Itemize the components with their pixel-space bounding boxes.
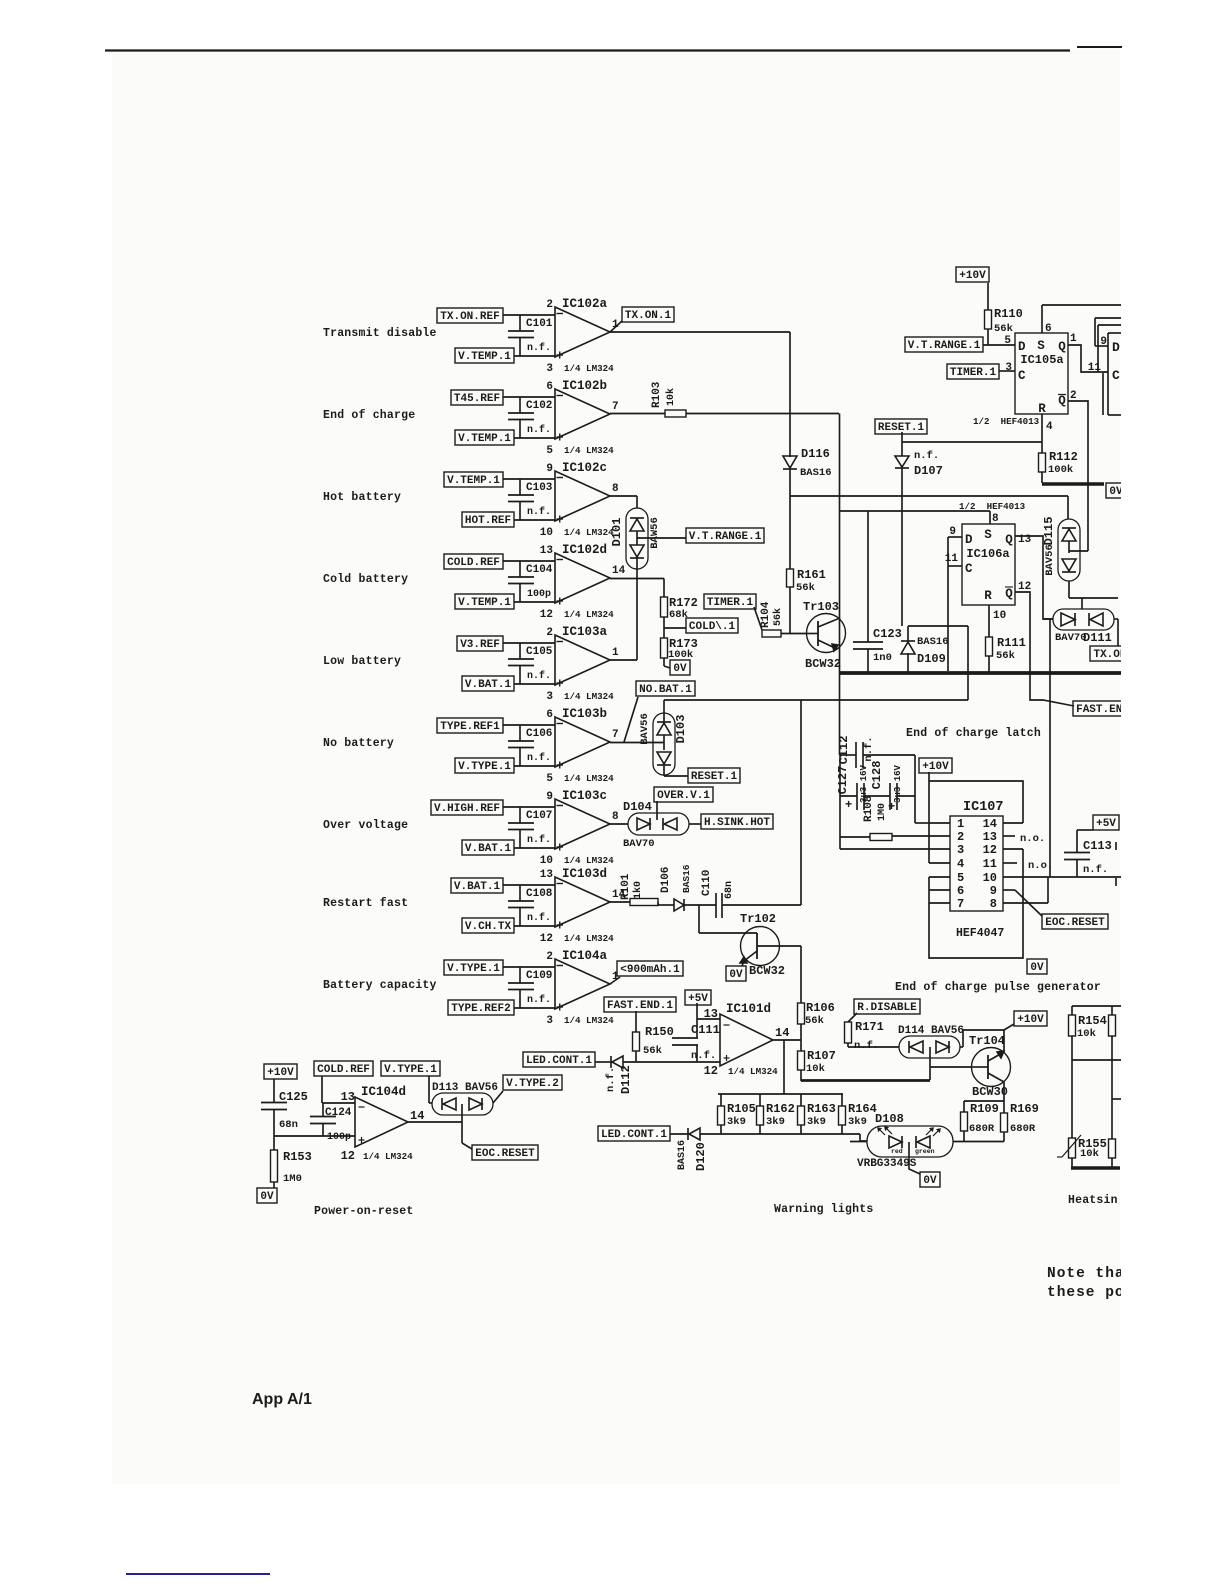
svg-text:IC102d: IC102d <box>562 543 607 557</box>
wire <box>781 633 807 635</box>
svg-text:RESET.1: RESET.1 <box>691 771 738 783</box>
svg-text:V.TEMP.1: V.TEMP.1 <box>458 433 511 445</box>
svg-text:Restart fast: Restart fast <box>323 897 408 910</box>
svg-text:V.CH.TX: V.CH.TX <box>465 921 512 933</box>
flip-flop IC106a (1/2 HEF4013) <box>962 524 1015 605</box>
wire <box>1095 317 1122 319</box>
node <900mAh.1 <box>617 961 683 976</box>
svg-text:6: 6 <box>957 884 964 898</box>
resistor R163 <box>800 1094 802 1106</box>
capacitor C109 <box>519 967 521 983</box>
svg-text:V.TYPE.2: V.TYPE.2 <box>506 1078 559 1090</box>
svg-text:Heatsin: Heatsin <box>1068 1194 1118 1207</box>
svg-text:+5V: +5V <box>688 993 708 1005</box>
svg-text:n.f.: n.f. <box>527 994 551 1006</box>
svg-text:Tr103: Tr103 <box>803 600 839 614</box>
svg-text:BAV56: BAV56 <box>1044 544 1056 576</box>
wire <box>274 1135 355 1137</box>
wire <box>718 1093 843 1095</box>
svg-text:D112: D112 <box>619 1065 633 1094</box>
svg-text:1/4 LM324: 1/4 LM324 <box>564 609 614 620</box>
svg-text:9: 9 <box>990 884 997 898</box>
svg-text:14: 14 <box>775 1026 789 1040</box>
svg-text:0V: 0V <box>1109 486 1123 498</box>
svg-text:1/4 LM324: 1/4 LM324 <box>728 1066 778 1077</box>
svg-text:C102: C102 <box>526 400 552 412</box>
svg-text:1: 1 <box>1070 333 1077 345</box>
svg-text:2: 2 <box>546 951 553 963</box>
svg-text:C110: C110 <box>701 870 713 896</box>
svg-text:End of charge latch: End of charge latch <box>906 727 1041 740</box>
svg-text:R101: R101 <box>620 873 632 900</box>
capacitor C128 <box>864 795 890 797</box>
resistor R150 <box>633 1032 640 1051</box>
svg-text:End of charge pulse generator: End of charge pulse generator <box>895 981 1101 994</box>
capacitor C127 <box>840 795 857 797</box>
svg-text:D: D <box>1018 340 1026 354</box>
svg-text:100p: 100p <box>527 589 551 600</box>
svg-text:S: S <box>984 528 992 542</box>
svg-text:T45.REF: T45.REF <box>454 393 500 405</box>
svg-text:R107: R107 <box>807 1049 836 1063</box>
svg-text:BCW30: BCW30 <box>972 1085 1008 1099</box>
svg-text:D111: D111 <box>1083 631 1112 645</box>
svg-text:3k9: 3k9 <box>766 1116 785 1128</box>
svg-text:56k: 56k <box>772 608 784 626</box>
svg-text:0V: 0V <box>1030 962 1044 974</box>
capacitor C103 <box>519 479 521 495</box>
svg-text:R106: R106 <box>806 1001 835 1015</box>
node V.BAT.1 <box>462 840 514 855</box>
wire <box>850 1141 867 1143</box>
wire <box>610 742 664 744</box>
diode D114 <box>899 1036 960 1058</box>
wire <box>779 945 801 947</box>
svg-text:FAST.END.1: FAST.END.1 <box>607 1000 673 1012</box>
svg-text:0V: 0V <box>729 969 743 981</box>
svg-text:1/4 LM324: 1/4 LM324 <box>564 773 614 784</box>
wire <box>1071 1036 1073 1138</box>
wire <box>947 537 949 671</box>
svg-text:1k0: 1k0 <box>632 881 644 899</box>
svg-text:6: 6 <box>546 709 553 721</box>
node V.TEMP.1 <box>455 348 514 363</box>
capacitor C113 (n.f.) <box>1064 852 1090 854</box>
svg-text:R110: R110 <box>994 307 1023 321</box>
svg-text:680R: 680R <box>1010 1123 1036 1135</box>
svg-text:1M0: 1M0 <box>283 1173 302 1185</box>
wire <box>503 642 555 644</box>
svg-text:VRBG3349S: VRBG3349S <box>857 1158 917 1170</box>
diode D107 (n.f.) <box>901 442 903 456</box>
wire <box>790 495 1068 497</box>
wire <box>929 1047 931 1080</box>
svg-text:V.BAT.1: V.BAT.1 <box>465 843 512 855</box>
svg-text:C: C <box>965 562 973 576</box>
svg-text:IC104a: IC104a <box>562 949 608 963</box>
svg-text:V.TYPE.1: V.TYPE.1 <box>458 761 511 773</box>
svg-text:C124: C124 <box>325 1107 352 1119</box>
svg-text:D101: D101 <box>610 518 624 547</box>
svg-text:1M0: 1M0 <box>877 803 888 821</box>
svg-text:2: 2 <box>546 627 553 639</box>
svg-text:BAV70: BAV70 <box>1055 632 1087 644</box>
svg-text:No battery: No battery <box>323 737 394 750</box>
svg-text:R: R <box>984 589 992 603</box>
svg-text:56k: 56k <box>994 323 1013 335</box>
wire <box>718 1133 860 1135</box>
wire <box>839 414 841 756</box>
node V.CH.TX <box>462 918 514 933</box>
svg-text:n.o.: n.o. <box>1020 833 1045 845</box>
wire <box>595 1061 611 1063</box>
svg-text:10: 10 <box>540 855 553 867</box>
wire <box>800 1024 802 1051</box>
node T45.REF <box>451 390 503 405</box>
svg-text:+10V: +10V <box>922 761 949 773</box>
power +10V <box>956 267 989 282</box>
wire <box>503 478 555 480</box>
node FAST.END.1 <box>1073 701 1132 716</box>
svg-text:S: S <box>1037 339 1045 353</box>
svg-text:TIMER.1: TIMER.1 <box>707 597 754 609</box>
wire <box>321 1076 323 1103</box>
power +5V <box>685 990 711 1005</box>
svg-text:+10V: +10V <box>267 1067 294 1079</box>
svg-text:12: 12 <box>704 1064 718 1078</box>
svg-text:6: 6 <box>1045 323 1052 335</box>
svg-text:+10V: +10V <box>1017 1014 1044 1026</box>
wire <box>789 587 791 633</box>
svg-text:+: + <box>845 798 852 812</box>
svg-text:10: 10 <box>993 610 1006 622</box>
wire <box>503 314 555 316</box>
svg-text:3: 3 <box>957 843 964 857</box>
svg-text:14: 14 <box>983 817 997 831</box>
svg-text:<900mAh.1: <900mAh.1 <box>620 964 680 976</box>
capacitor C106 <box>519 725 521 741</box>
svg-text:n.f.: n.f. <box>527 912 551 924</box>
svg-text:3u3 16V: 3u3 16V <box>893 765 903 803</box>
svg-text:C109: C109 <box>526 970 552 982</box>
svg-text:C128: C128 <box>870 761 884 790</box>
node V.TEMP.1 <box>444 472 503 487</box>
ground 0V <box>726 966 746 981</box>
node OVER.V.1 <box>654 787 713 802</box>
ground rail 0V (thick) <box>840 671 1122 675</box>
svg-text:BAS16: BAS16 <box>917 636 949 648</box>
wire <box>684 904 716 906</box>
resistor R108 <box>870 834 892 841</box>
svg-text:n.o.: n.o. <box>1028 860 1053 872</box>
svg-text:2: 2 <box>546 299 553 311</box>
resistor R155 (thermistor) <box>1069 1138 1076 1158</box>
svg-text:4: 4 <box>1046 421 1053 433</box>
wire <box>698 905 700 933</box>
svg-text:n.f.: n.f. <box>1083 864 1108 876</box>
svg-text:+5V: +5V <box>1096 818 1116 830</box>
svg-text:D107: D107 <box>914 464 943 478</box>
svg-text:V.TYPE.1: V.TYPE.1 <box>384 1064 437 1076</box>
svg-text:n.f.: n.f. <box>527 342 551 354</box>
svg-text:IC103c: IC103c <box>562 789 607 803</box>
svg-text:IC105a: IC105a <box>1020 353 1063 367</box>
svg-text:C106: C106 <box>526 728 552 740</box>
wire <box>901 432 903 442</box>
node TYPE.REF2 <box>448 1000 514 1015</box>
wire <box>789 332 791 457</box>
ground rail 0V <box>1042 482 1104 486</box>
wire <box>773 1039 801 1041</box>
svg-text:D: D <box>965 533 973 547</box>
op-amp IC103c <box>555 799 610 849</box>
node V.T.RANGE.1 <box>905 337 983 352</box>
capacitor C111 (n.f.) <box>696 1019 698 1038</box>
wire <box>1068 581 1070 598</box>
wire <box>610 823 628 825</box>
op-amp IC103b <box>555 717 610 767</box>
node V.BAT.1 <box>451 878 503 893</box>
diode D120 <box>670 1133 688 1135</box>
capacitor C112 (n.f.) <box>840 754 856 756</box>
svg-text:13: 13 <box>540 869 554 881</box>
svg-text:V.T.RANGE.1: V.T.RANGE.1 <box>908 340 981 352</box>
node LED.CONT.1 <box>598 1126 670 1141</box>
wire <box>929 849 1023 958</box>
svg-text:Warning lights: Warning lights <box>774 1203 873 1216</box>
svg-text:D116: D116 <box>801 447 830 461</box>
svg-text:5: 5 <box>957 871 964 885</box>
svg-text:n.f.: n.f. <box>914 450 939 462</box>
svg-text:100k: 100k <box>668 649 693 661</box>
wire <box>636 558 638 660</box>
wire <box>722 904 801 906</box>
svg-text:R111: R111 <box>997 636 1026 650</box>
ground 0V <box>1027 959 1047 974</box>
svg-text:BAS16: BAS16 <box>681 864 692 893</box>
svg-text:R171: R171 <box>855 1020 884 1034</box>
wire <box>664 699 968 701</box>
svg-text:7: 7 <box>957 897 964 911</box>
svg-text:10k: 10k <box>1077 1028 1096 1040</box>
wire <box>610 495 637 497</box>
wire <box>839 755 841 849</box>
resistor R112 <box>1039 453 1046 472</box>
svg-text:EOC.RESET: EOC.RESET <box>1045 917 1105 929</box>
wire <box>1102 373 1104 415</box>
svg-text:TYPE.REF1: TYPE.REF1 <box>440 721 500 733</box>
capacitor C102 <box>519 397 521 413</box>
node FAST.END.1 <box>604 997 676 1012</box>
op-amp IC104a <box>555 959 610 1009</box>
svg-text:14: 14 <box>410 1109 424 1123</box>
node V.T.RANGE.1 <box>637 537 686 539</box>
svg-text:2: 2 <box>957 830 964 844</box>
svg-text:C113: C113 <box>1083 839 1112 853</box>
svg-text:1/4 LM324: 1/4 LM324 <box>564 363 614 374</box>
svg-text:red: red <box>891 1148 903 1155</box>
power +10V <box>264 1064 297 1079</box>
transistor Tr103 <box>807 614 846 653</box>
svg-text:IC103d: IC103d <box>562 867 607 881</box>
svg-text:1/4 LM324: 1/4 LM324 <box>564 855 614 866</box>
svg-text:Tr104: Tr104 <box>969 1034 1005 1048</box>
op-amp IC102d <box>555 553 610 603</box>
svg-text:3: 3 <box>1005 362 1012 374</box>
wire <box>623 1061 720 1063</box>
svg-text:C: C <box>1112 368 1120 383</box>
node TX.ON.1 <box>622 307 674 322</box>
svg-text:R153: R153 <box>283 1150 312 1164</box>
svg-text:13: 13 <box>983 830 997 844</box>
wire <box>429 1102 432 1104</box>
svg-text:HEF4047: HEF4047 <box>956 927 1004 940</box>
wire <box>656 801 658 820</box>
wire <box>663 617 665 638</box>
svg-text:TX.ON.REF: TX.ON.REF <box>440 311 499 323</box>
svg-text:1/4 LM324: 1/4 LM324 <box>564 1015 614 1026</box>
diode D113 <box>432 1093 493 1115</box>
svg-text:NO.BAT.1: NO.BAT.1 <box>639 684 692 696</box>
node COLD.REF <box>314 1061 373 1076</box>
svg-text:C107: C107 <box>526 810 552 822</box>
svg-text:1/4 LM324: 1/4 LM324 <box>363 1151 413 1162</box>
op-amp IC102b <box>555 389 610 439</box>
svg-text:R.DISABLE: R.DISABLE <box>857 1002 917 1014</box>
op-amp IC103a <box>555 635 610 685</box>
svg-text:13: 13 <box>540 545 554 557</box>
node TX.ON (clipped) <box>1090 646 1130 661</box>
svg-text:D108: D108 <box>875 1112 904 1126</box>
wire <box>840 848 950 850</box>
svg-text:n.f.: n.f. <box>527 506 551 518</box>
op-amp IC104d <box>355 1097 408 1147</box>
svg-text:1/4 LM324: 1/4 LM324 <box>564 527 614 538</box>
svg-text:R103: R103 <box>651 381 663 408</box>
svg-text:1: 1 <box>957 817 964 831</box>
resistor R161 <box>787 569 794 587</box>
wire <box>800 1070 802 1081</box>
svg-text:12: 12 <box>540 933 553 945</box>
IC U IC107 (HEF4047) <box>950 816 1003 911</box>
svg-text:3k9: 3k9 <box>727 1116 746 1128</box>
wire <box>635 1011 637 1032</box>
svg-text:5: 5 <box>546 773 553 785</box>
svg-text:11: 11 <box>1088 362 1102 374</box>
svg-text:TX.ON.1: TX.ON.1 <box>625 310 672 322</box>
diode D112 (n.f.) <box>610 1056 612 1068</box>
node V.TYPE.2 <box>493 1091 503 1103</box>
transistor Tr102 <box>741 927 780 966</box>
svg-text:3: 3 <box>546 691 553 703</box>
svg-text:R169: R169 <box>1010 1102 1039 1116</box>
svg-text:BCW32: BCW32 <box>805 657 841 671</box>
node R.DISABLE <box>854 999 920 1014</box>
LED D108 <box>867 1126 953 1157</box>
op-amp IC101d <box>720 1014 773 1066</box>
resistor R162 <box>759 1094 761 1106</box>
svg-text:n.f.: n.f. <box>863 736 875 761</box>
wire <box>789 469 791 569</box>
wire <box>1043 618 1053 620</box>
node EOC.RESET <box>1042 914 1108 929</box>
svg-text:1/4 LM324: 1/4 LM324 <box>564 933 614 944</box>
power +10V <box>919 758 952 773</box>
diode D111 <box>1053 609 1114 630</box>
wire <box>847 1043 849 1047</box>
svg-text:V.TEMP.1: V.TEMP.1 <box>447 475 500 487</box>
diode D101 <box>626 508 648 569</box>
svg-text:V.TYPE.1: V.TYPE.1 <box>447 963 500 975</box>
svg-text:10k: 10k <box>1080 1148 1099 1160</box>
svg-text:13: 13 <box>704 1007 718 1021</box>
diode D116 <box>783 456 797 468</box>
wire <box>503 884 555 886</box>
svg-text:68n: 68n <box>724 881 735 899</box>
node V.TYPE.1 <box>444 960 503 975</box>
wire <box>503 966 555 968</box>
svg-text:C111: C111 <box>691 1023 720 1037</box>
resistor R104 <box>762 630 781 637</box>
svg-text:10: 10 <box>540 527 553 539</box>
svg-text:8: 8 <box>992 513 999 525</box>
svg-text:10k: 10k <box>665 388 677 406</box>
capacitor C125 <box>273 1079 275 1103</box>
wire <box>908 625 968 627</box>
svg-text:n.f.: n.f. <box>527 424 551 436</box>
node RESET.1 <box>875 419 927 434</box>
wire <box>1003 902 1048 904</box>
svg-text:n.f.: n.f. <box>854 1040 879 1052</box>
wire <box>610 413 665 415</box>
power +10V <box>1003 1030 1005 1052</box>
wire <box>503 396 555 398</box>
wire <box>840 510 990 512</box>
wire <box>428 1076 430 1103</box>
diode D115 <box>1058 519 1080 581</box>
wire <box>503 560 555 562</box>
svg-text:BCW32: BCW32 <box>749 964 785 978</box>
svg-text:R: R <box>1038 402 1046 416</box>
svg-text:D104: D104 <box>623 800 652 814</box>
svg-text:OVER.V.1: OVER.V.1 <box>657 790 710 802</box>
svg-text:C: C <box>1018 369 1026 383</box>
svg-text:C104: C104 <box>526 564 553 576</box>
svg-text:H.SINK.HOT: H.SINK.HOT <box>704 817 770 829</box>
svg-text:68n: 68n <box>279 1119 298 1131</box>
node RESET.1 <box>688 768 740 783</box>
svg-text:Low battery: Low battery <box>323 655 401 668</box>
svg-text:C108: C108 <box>526 888 553 900</box>
svg-text:Over voltage: Over voltage <box>323 819 408 832</box>
wire <box>1042 304 1122 306</box>
capacitor C123 <box>867 511 869 642</box>
svg-text:12: 12 <box>341 1149 355 1163</box>
svg-text:100k: 100k <box>1048 464 1073 476</box>
wire <box>1041 414 1043 442</box>
svg-text:R104: R104 <box>760 601 772 628</box>
svg-text:0V: 0V <box>923 1175 937 1187</box>
svg-text:7: 7 <box>612 729 619 741</box>
svg-text:C125: C125 <box>279 1090 308 1104</box>
svg-text:COLD\.1: COLD\.1 <box>689 621 736 633</box>
capacitor C107 <box>519 807 521 823</box>
svg-text:8: 8 <box>612 811 619 823</box>
svg-text:n.f.: n.f. <box>527 834 551 846</box>
svg-text:R154: R154 <box>1078 1014 1107 1028</box>
svg-text:13: 13 <box>341 1090 355 1104</box>
capacitor C104 <box>519 561 521 577</box>
